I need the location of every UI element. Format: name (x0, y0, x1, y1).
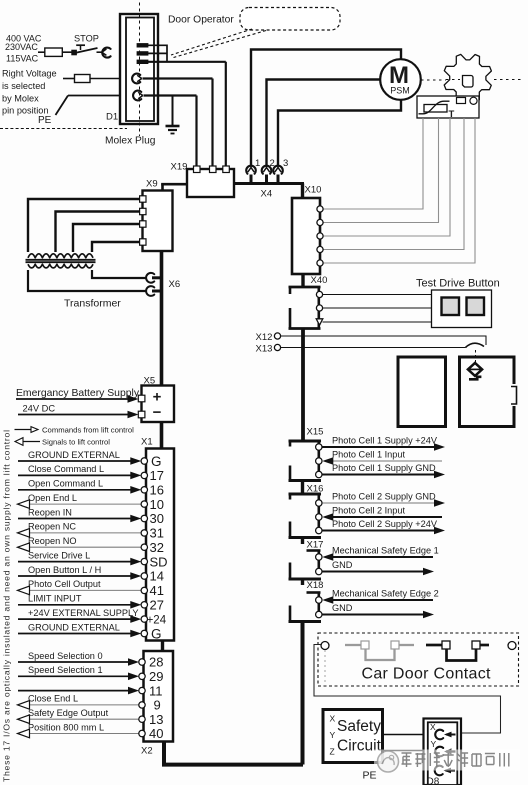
X1 row +24: +24V EXTERNAL SUPPLY (18, 608, 167, 627)
door panel right (460, 357, 517, 427)
X2 row 9: Close End L (18, 694, 161, 713)
wire X1 to X2 (161, 641, 164, 652)
motor M1 PSM (380, 59, 421, 100)
wire shaft axis right (dashed) (494, 79, 523, 81)
X2 row 11: wire (18, 683, 163, 698)
svg-text:STOP: STOP (74, 33, 99, 43)
X17 row: GND (316, 560, 434, 575)
wire contact to photocell (dashed) (475, 350, 477, 362)
wire transformer tap 4 to X9 (92, 242, 140, 252)
X9 pin 1 (140, 196, 146, 202)
connector X9 (143, 179, 173, 252)
wire X10 to X40 (301, 274, 304, 287)
svg-text:GROUND EXTERNAL: GROUND EXTERNAL (28, 622, 120, 632)
X1 row 31: Reopen NC (18, 522, 164, 541)
car door contact (dashed enclosure) (318, 633, 519, 686)
wire mains input (38, 51, 45, 53)
svg-text:Photo Cell 1 Supply GND: Photo Cell 1 Supply GND (332, 463, 436, 473)
svg-text:+24: +24 (147, 614, 167, 626)
X1 row 41: Photo Cell Output (18, 579, 164, 598)
wire secondary upper to X6 (92, 270, 147, 278)
X2 row 13: Safety Edge Output (18, 708, 164, 727)
svg-text:Reopen IN: Reopen IN (28, 507, 72, 517)
svg-text:Reopen NC: Reopen NC (28, 522, 76, 532)
ground (166, 96, 180, 134)
fuse F1 (45, 51, 72, 53)
X1 row G: GROUND EXTERNAL (18, 450, 162, 469)
door panel left (398, 357, 446, 427)
svg-text:Door Operator: Door Operator (168, 15, 234, 26)
wire door operator boundary (dashed) (0, 128, 127, 130)
X15 row: Photo Cell 1 Supply +24V (316, 435, 445, 450)
X1 row 14: Open Button L / H (18, 565, 164, 584)
svg-text:SD: SD (150, 554, 168, 569)
connector X10 (292, 185, 321, 275)
test drive button S2 (416, 278, 500, 328)
svg-text:X16: X16 (307, 484, 324, 495)
svg-text:9: 9 (154, 698, 161, 713)
svg-text:PE: PE (363, 770, 377, 782)
node X12 (256, 332, 281, 343)
transformer T1 (26, 254, 122, 310)
wire PE lead (56, 96, 135, 116)
safety circuit module (323, 710, 383, 763)
svg-text:115VAC: 115VAC (6, 53, 39, 63)
X1 row 16: Open Command L (18, 479, 164, 498)
connector X18 (289, 593, 322, 622)
svg-text:X9: X9 (146, 179, 158, 190)
X40 pin 2 (316, 305, 322, 311)
svg-text:+24V EXTERNAL SUPPLY: +24V EXTERNAL SUPPLY (28, 608, 139, 618)
svg-text:X: X (430, 722, 436, 732)
svg-text:30: 30 (150, 511, 164, 526)
svg-text:X: X (330, 714, 336, 724)
svg-text:230VAC: 230VAC (5, 42, 38, 52)
wire X4-3 to motor (278, 98, 401, 166)
svg-text:Photo Cell Output: Photo Cell Output (28, 579, 101, 589)
wire select to X19 pin 2 (143, 79, 213, 168)
svg-text:Reopen NO: Reopen NO (28, 536, 77, 546)
svg-text:17: 17 (150, 468, 164, 483)
watermark text 电梯维修海纳百川 (402, 753, 509, 767)
svg-text:Molex Plug: Molex Plug (105, 136, 156, 147)
plug contact L (115VAC select) (132, 74, 142, 84)
wire transformer tap 1 to X9 (28, 199, 140, 252)
wire X16 to X17 (301, 538, 304, 545)
door contact B (closed, black) (426, 641, 489, 661)
X16 row: Photo Cell 2 Supply GND (316, 491, 445, 506)
svg-text:Photo Cell 1 Input: Photo Cell 1 Input (332, 449, 405, 459)
svg-text:by Molex: by Molex (2, 93, 39, 103)
svg-text:Service Drive L: Service Drive L (28, 550, 90, 560)
svg-text:Z: Z (330, 747, 335, 757)
wire Emergancy Battery Supply (16, 388, 140, 403)
X9 pin 2 (140, 208, 146, 214)
wire X17 to X18 (301, 579, 304, 585)
svg-text:G: G (151, 627, 162, 642)
connector D8 (car top) (424, 719, 462, 785)
wire X9 to X19 (161, 184, 187, 192)
svg-text:14: 14 (150, 569, 164, 584)
pin voltage-select bars (137, 44, 148, 64)
svg-text:24V DC: 24V DC (23, 404, 56, 414)
svg-text:27: 27 (150, 598, 164, 613)
test contact (NC blade) (466, 343, 485, 347)
svg-text:Test Drive Button: Test Drive Button (416, 278, 500, 290)
svg-text:X15: X15 (307, 427, 324, 438)
wire shaft axis mid (dashed) (446, 79, 460, 81)
X1 row 30: Reopen IN (18, 507, 164, 526)
node Door Operator callout (168, 8, 340, 58)
svg-text:31: 31 (150, 526, 164, 541)
connector X4 pin 2 (262, 163, 272, 184)
connector X19 (171, 162, 235, 198)
wire X15 to X16 (301, 481, 304, 495)
connector X5 emergency battery (138, 376, 174, 423)
svg-text:Right Voltage: Right Voltage (2, 69, 57, 79)
wire X19 to X10 bus (234, 184, 304, 199)
X9 pin 3 (140, 221, 146, 227)
svg-text:PE: PE (38, 115, 52, 126)
wire left bus X5 to X1 (160, 422, 164, 449)
svg-text:Photo Cell 2 Supply GND: Photo Cell 2 Supply GND (332, 491, 436, 501)
svg-text:40: 40 (149, 726, 163, 741)
svg-text:10: 10 (150, 497, 164, 512)
svg-text:X10: X10 (305, 185, 322, 196)
connector X15 (289, 441, 322, 481)
svg-text:X4: X4 (261, 189, 273, 200)
note right voltage selection (2, 69, 57, 116)
svg-text:Speed Selection 1: Speed Selection 1 (28, 665, 103, 675)
svg-text:3: 3 (283, 158, 288, 169)
wire X2 to bottom bus (164, 742, 303, 765)
svg-text:41: 41 (150, 583, 164, 598)
svg-text:Close End L: Close End L (28, 694, 78, 704)
wire X40-2 to button (323, 307, 432, 309)
wire voltage select (63, 78, 74, 80)
svg-text:G: G (151, 454, 162, 469)
X1 row G: GROUND EXTERNAL (18, 622, 162, 641)
svg-text:13: 13 (149, 712, 163, 727)
watermark logo (378, 751, 399, 772)
wire car door contact loop to safety connector (314, 645, 501, 734)
svg-text:X2: X2 (141, 746, 153, 757)
svg-text:GROUND EXTERNAL: GROUND EXTERNAL (28, 450, 120, 460)
svg-text:Speed Selection 0: Speed Selection 0 (28, 651, 103, 661)
X10 pin 4 (317, 246, 323, 252)
connector X40 (289, 275, 328, 329)
D8 contact Z (435, 766, 455, 776)
svg-text:Open Command L: Open Command L (28, 479, 103, 489)
X10 pin 3 (317, 233, 323, 239)
svg-text:X19: X19 (171, 162, 188, 173)
svg-text:Safety: Safety (337, 718, 381, 735)
X16 row: Photo Cell 2 Input (316, 505, 442, 520)
door contact A (open, gray) (345, 641, 414, 660)
svg-text:Mechanical Safety Edge 1: Mechanical Safety Edge 1 (332, 545, 439, 555)
node car door contact terminal right (508, 642, 516, 650)
svg-text:32: 32 (150, 540, 164, 555)
connector X2 (141, 651, 173, 757)
svg-text:Photo Cell 2 Input: Photo Cell 2 Input (332, 505, 405, 515)
X1 row 10: Open End L (18, 493, 164, 512)
svg-text:2: 2 (270, 158, 275, 169)
wire safety Y to connector (383, 750, 425, 752)
X15 row: Photo Cell 1 Input (316, 449, 442, 464)
svg-text:Y: Y (330, 730, 336, 740)
plug contact mains to Molex (102, 48, 111, 58)
wire PE to X19 pin 1 (144, 96, 197, 168)
photo cell sensor symbol (468, 363, 482, 379)
X10 pin 2 (317, 219, 323, 225)
wire X4-2 to motor (267, 80, 382, 166)
X40 pin 3 (316, 319, 323, 325)
legend signals to lift control (15, 438, 110, 447)
svg-text:D8: D8 (427, 777, 440, 785)
X1 row 32: Reopen NO (18, 536, 164, 555)
svg-text:X18: X18 (307, 580, 324, 591)
D8 contact Y (435, 747, 455, 757)
wire X40 to X15 bus (301, 329, 305, 442)
svg-text:X1: X1 (141, 437, 153, 448)
svg-text:X12: X12 (256, 332, 273, 343)
connector X6 contact b (146, 286, 162, 296)
node X13 (256, 344, 281, 355)
connector X16 (289, 494, 322, 538)
svg-text:+: + (153, 389, 162, 406)
svg-text:Y: Y (431, 739, 437, 749)
connector X17 (289, 551, 322, 580)
svg-text:Open End L: Open End L (28, 493, 77, 503)
wire 24V DC (18, 404, 139, 419)
svg-text:PSM: PSM (390, 86, 410, 96)
wire safety X to connector (383, 734, 425, 736)
connector X4 pin 1 (246, 163, 256, 184)
svg-text:Mechanical Safety Edge 2: Mechanical Safety Edge 2 (332, 588, 439, 598)
svg-text:29: 29 (149, 669, 163, 684)
wire voltage bars tie (148, 45, 226, 63)
svg-text:Car Door Contact: Car Door Contact (362, 666, 492, 683)
svg-text:Emergancy Battery Supply: Emergancy Battery Supply (16, 388, 140, 399)
connector X4 pin 3 (273, 163, 283, 184)
svg-text:Safety Edge Output: Safety Edge Output (28, 708, 109, 718)
svg-text:Close Command L: Close Command L (28, 464, 104, 474)
X18 row: Mechanical Safety Edge 2 (316, 588, 439, 603)
X40 pin 1 (316, 291, 322, 297)
X10 pin 5 (317, 260, 323, 266)
svg-text:D1: D1 (106, 112, 118, 123)
X1 row SD: Service Drive L (18, 550, 168, 569)
connector X6 contact a (146, 273, 162, 283)
D8 contact X (435, 730, 455, 740)
svg-text:Position 800 mm L: Position 800 mm L (28, 722, 104, 732)
svg-text:1: 1 (255, 158, 260, 169)
fuse F2 (74, 78, 132, 80)
wire X13 to test contact (281, 347, 466, 349)
svg-text:These 17 I/Os are optically in: These 17 I/Os are optically insulated an… (2, 430, 12, 782)
wire X4-1 to motor (251, 50, 401, 166)
svg-text:Open Button L / H: Open Button L / H (28, 565, 101, 575)
svg-text:X5: X5 (144, 376, 156, 387)
svg-text:11: 11 (149, 683, 163, 698)
X16 row: Photo Cell 2 Supply +24V (316, 519, 445, 534)
X17 row: Mechanical Safety Edge 1 (316, 545, 439, 560)
wire motor shaft axis (dashed) (421, 79, 446, 81)
wire transformer tap 3 to X9 (73, 224, 140, 252)
X10 pin 1 (317, 206, 323, 212)
wire transformer tap 2 to X9 (56, 212, 140, 253)
X2 row 28: Speed Selection 0 (18, 651, 163, 670)
svg-text:Photo Cell 1 Supply +24V: Photo Cell 1 Supply +24V (332, 435, 438, 445)
encoder / thermal sensor box (417, 96, 479, 120)
X18 row: GND (316, 603, 434, 618)
svg-text:GND: GND (332, 603, 353, 613)
svg-text:X6: X6 (169, 279, 181, 290)
svg-text:X40: X40 (311, 275, 328, 286)
wire secondary lower to X6 (28, 270, 147, 291)
X1 row 17: Close Command L (18, 464, 164, 483)
X15 row: Photo Cell 1 Supply GND (316, 463, 445, 478)
X9 pin 4 (140, 239, 146, 245)
wire X18 to bottom bus (301, 622, 305, 765)
node car door contact terminal left (321, 642, 329, 650)
wire left bus X9 to X5 (160, 251, 164, 386)
svg-text:T: T (449, 109, 455, 120)
svg-text:LIMIT INPUT: LIMIT INPUT (28, 594, 82, 604)
watermark band (374, 750, 520, 771)
X2 row 29: Speed Selection 1 (18, 665, 163, 684)
svg-text:X13: X13 (256, 344, 273, 355)
connector D1 Molex Plug (105, 3, 158, 147)
legend commands from lift control (15, 426, 135, 435)
wire power to X19 pin 3 (225, 62, 227, 167)
svg-text:16: 16 (150, 483, 164, 498)
svg-text:Photo Cell 2 Supply +24V: Photo Cell 2 Supply +24V (332, 519, 438, 529)
gear / belt pulley (444, 54, 491, 101)
svg-text:28: 28 (149, 655, 163, 670)
X1 row 27: LIMIT INPUT (18, 594, 164, 613)
plug contact PE (133, 91, 143, 101)
svg-text:Signals to lift control: Signals to lift control (42, 438, 110, 447)
wire terminal leader (dash) (324, 650, 326, 686)
svg-text:Commands from lift control: Commands from lift control (42, 426, 134, 435)
connector X1 (141, 437, 174, 641)
svg-text:GND: GND (332, 560, 353, 570)
svg-text:−: − (153, 404, 162, 421)
wire X40-3 to button (323, 321, 432, 323)
svg-text:Transformer: Transformer (64, 298, 121, 310)
wire X40-1 to button (323, 294, 432, 296)
svg-text:X17: X17 (307, 540, 324, 551)
wire X12 to test contact (281, 336, 486, 345)
X2 row 40: Position 800 mm L (18, 722, 164, 741)
svg-text:is selected: is selected (2, 81, 45, 91)
wire encoder signals to X10 (5) (323, 118, 476, 263)
